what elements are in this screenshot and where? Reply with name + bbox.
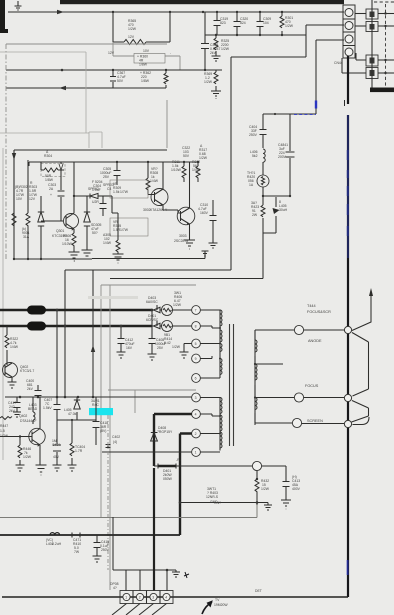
ferrite bead on y310 (27, 306, 46, 315)
resistor R410 on y535 (72, 533, 80, 538)
flyback board box (101, 285, 196, 590)
wire bus y280 (110, 278, 263, 280)
ground small at 205 (202, 251, 209, 256)
annotation arrow bottom (202, 602, 212, 614)
diode D401 (152, 321, 162, 326)
capacitor C408 (149, 310, 156, 354)
capacitor C319 (214, 12, 221, 35)
wire light y517 (0, 505, 257, 518)
svg-text:DET: DET (255, 589, 262, 593)
capacitor C417 (14, 397, 21, 412)
wire y196 (263, 195, 290, 197)
diode D408 (151, 433, 158, 442)
svg-text:TV: TV (215, 598, 220, 602)
surge arrester SUR1 cyan highlight (89, 408, 113, 415)
svg-text:160V: 160V (200, 211, 209, 215)
wire thick top bar (60, 0, 344, 4)
ground under R369 (211, 91, 221, 99)
capacitor C305 (114, 162, 121, 185)
wire box B1 to dashed (378, 13, 394, 15)
svg-text:823: 823 (220, 21, 226, 25)
resistor R301 (281, 12, 283, 35)
wire x96 down (95, 397, 97, 445)
svg-text:19M20W: 19M20W (214, 603, 228, 607)
svg-text:1: 1 (125, 596, 127, 600)
connector CN44 (343, 5, 355, 58)
wire amp box (14, 150, 167, 259)
svg-text:50V: 50V (183, 154, 190, 158)
svg-text:1A: 1A (249, 183, 254, 187)
svg-text:10V: 10V (143, 49, 150, 53)
svg-text:1/2W: 1/2W (261, 487, 270, 491)
svg-text:12V: 12V (29, 197, 36, 201)
wire base left (0, 436, 32, 438)
resistor R309 service box (110, 180, 148, 198)
resistor R365 (113, 12, 170, 42)
thick drive path pin4 (154, 414, 192, 466)
svg-text:10V: 10V (16, 197, 23, 201)
svg-text:-R-: -R- (176, 458, 181, 462)
node arrow down (12, 153, 16, 160)
fusible resistor circled R405 (162, 321, 173, 332)
ground under C412 (117, 352, 126, 358)
wire pin4 to box B3 (356, 53, 366, 60)
ground y503 stub (257, 503, 272, 511)
potentiometer R304 (41, 164, 65, 177)
wire bottom long line (2, 596, 348, 598)
svg-text:KTC3/1.7: KTC3/1.7 (20, 369, 34, 373)
winding rails (220, 310, 255, 451)
resistor R305 service box (110, 218, 148, 236)
ground under C417 (13, 412, 21, 417)
transistor Q401 (3, 363, 18, 378)
capacitor C407 (54, 397, 61, 420)
wire pin3 path (263, 40, 344, 114)
wire thick y535 H-return (0, 534, 180, 536)
resistor R311 (183, 162, 185, 166)
svg-text:1/8W: 1/8W (139, 63, 148, 67)
svg-text:3: 3 (195, 396, 197, 400)
wire G1 right to C413 (262, 466, 286, 481)
resistor R308 (147, 162, 149, 178)
wire y196 down (263, 196, 276, 233)
wire box B3 right (378, 59, 394, 61)
inductor L404 on y535 (50, 533, 60, 535)
node arrow on y12 (57, 10, 64, 14)
blue dashed annotation y114 (294, 114, 316, 116)
svg-text:4: 4 (165, 596, 167, 600)
svg-text:1/4W: 1/4W (150, 179, 159, 183)
svg-text:(8V): (8V) (100, 429, 106, 433)
wire main top bus y12 (8, 11, 344, 13)
secondary winding (255, 330, 294, 340)
component box B4 (366, 68, 378, 79)
svg-text:U2R: U2R (92, 200, 99, 204)
wire pin2 to box B2 (355, 25, 366, 27)
svg-text:9: 9 (195, 357, 197, 361)
capacitor C367 (110, 70, 116, 88)
wire gnd line y503 (180, 502, 257, 504)
svg-text:1/2W: 1/2W (173, 303, 182, 307)
vertical feeds to y397 (57, 310, 65, 397)
transformer core (230, 324, 234, 446)
wire Q302 emitter to Q303 (163, 162, 178, 213)
svg-text:25V: 25V (157, 346, 164, 350)
svg-text:1/2W: 1/2W (199, 156, 208, 160)
ground under C406 (53, 465, 62, 471)
dash-dot vertical (107, 415, 109, 570)
svg-text:30uH: 30uH (279, 208, 288, 212)
capacitor C320 (234, 12, 241, 35)
svg-text:1/2W: 1/2W (0, 434, 9, 438)
svg-text:1.5: 1.5 (0, 429, 5, 433)
wire thick left edge bar (0, 0, 5, 33)
svg-text:BEAD: BEAD (28, 407, 38, 411)
svg-text:2.2uH: 2.2uH (52, 542, 62, 546)
wire pin1 to box B1 (355, 13, 366, 15)
svg-text:FOCUS: FOCUS (305, 384, 319, 388)
wire bus y35 (205, 25, 344, 35)
ground Q301 emitter (69, 250, 80, 261)
pin column T444 (192, 306, 201, 457)
svg-text:1.7R: 1.7R (75, 449, 83, 453)
wire thick B+ bus y310 (0, 309, 152, 311)
svg-text:1/4W: 1/4W (103, 241, 112, 245)
svg-text:1.0uF: 1.0uF (92, 188, 101, 192)
wire bus y163 (74, 161, 198, 163)
wire thick drive into pin3 (153, 468, 155, 591)
wire y70 (6, 69, 222, 71)
HV node circles (344, 326, 351, 333)
transistor Q302 (151, 189, 168, 206)
capacitor C415 (94, 535, 101, 556)
ferrite bead on y326 (27, 322, 46, 331)
wire pin1 line y452 (102, 451, 192, 453)
svg-text:1/10W: 1/10W (171, 168, 182, 172)
wire y57 box path (231, 35, 306, 270)
svg-text:(4): (4) (113, 440, 117, 444)
svg-text:R304: R304 (44, 154, 52, 158)
wire pin3 bus y397 continues (5, 396, 192, 398)
svg-text:3: 3 (152, 596, 154, 600)
resistor R432 (256, 471, 258, 479)
capacitor C404 (260, 114, 267, 148)
svg-text:31A: 31A (23, 235, 30, 239)
svg-text:R447: R447 (0, 424, 8, 428)
svg-text:Q301: Q301 (56, 229, 64, 233)
wire inner top y160 (14, 150, 74, 213)
diode D403 (152, 305, 162, 310)
svg-text:7: 7 (195, 309, 197, 313)
ground Q402 emitter (36, 465, 47, 475)
resistor R360 (113, 42, 180, 70)
svg-text:5: 5 (195, 342, 197, 346)
wire x113 down to connector bus (112, 517, 114, 570)
svg-text:+: + (50, 193, 52, 197)
svg-text:200V: 200V (278, 155, 287, 159)
zener SD305 (86, 196, 88, 250)
inductor L406 (263, 149, 265, 162)
loop focus-screen (352, 401, 369, 423)
svg-text:16V: 16V (126, 346, 133, 350)
ground Q303 (184, 240, 195, 249)
fusible resistor circled R406 (162, 305, 173, 316)
ground under R325 (212, 56, 221, 61)
wire y466 to G1 (180, 465, 252, 467)
ground under R446 (16, 465, 25, 471)
connector CN408 (120, 591, 173, 604)
svg-text:1/8W: 1/8W (141, 79, 150, 83)
heavy HV vertical line (347, 56, 349, 104)
svg-text:1/8W: 1/8W (45, 178, 54, 182)
ground under Q401 (8, 382, 17, 388)
capacitor C412 (118, 326, 125, 352)
zener SV301 (90, 193, 98, 198)
wire box B2 right (378, 25, 394, 27)
diode D301 (40, 196, 42, 259)
resistor R404b (71, 420, 73, 465)
loop anode-focus (352, 333, 369, 397)
svg-text:25V: 25V (103, 175, 110, 179)
resistor R369 (205, 70, 216, 91)
resistor R321 (117, 236, 119, 240)
resistor R421 (261, 205, 265, 217)
transistor Q301 (64, 214, 79, 229)
svg-text:2: 2 (139, 596, 141, 600)
wire to box B4 (342, 58, 366, 73)
left edge faint vertical (2, 148, 4, 460)
annotation tick (184, 572, 189, 578)
ground top-left (15, 1, 22, 10)
svg-text:4: 4 (195, 413, 197, 417)
resistor R362 (113, 70, 166, 88)
svg-text:4?: 4? (113, 586, 117, 590)
svg-text:C40?: C40? (52, 443, 60, 447)
inductor L405b (275, 197, 277, 207)
svg-text:1/4W: 1/4W (192, 168, 201, 172)
wire box B4 right (378, 72, 394, 74)
svg-text:8: 8 (195, 325, 197, 329)
resistor R306 (72, 233, 76, 250)
svg-text:T444: T444 (307, 304, 316, 308)
ghost rect A (6, 44, 167, 148)
svg-text:1/2W: 1/2W (172, 345, 181, 349)
svg-text:2: 2 (195, 432, 197, 436)
capacitor C409 (286, 114, 295, 196)
svg-text:ANODE: ANODE (308, 339, 322, 343)
node circle G1 (252, 461, 261, 470)
primary winding upper (200, 310, 220, 378)
faint scan smudges (88, 296, 138, 299)
wire drops to pins (126, 570, 167, 591)
svg-text:6A0/SC: 6A0/SC (146, 300, 158, 304)
dashed CRT box edge (385, 4, 387, 88)
ground under C415 (93, 556, 102, 562)
wire y213 zener to right (112, 196, 118, 236)
svg-text:5k2: 5k2 (252, 154, 258, 158)
svg-text:1/10W: 1/10W (62, 242, 73, 246)
wire x245 to y280 (262, 233, 264, 279)
svg-text:50?: 50? (92, 231, 98, 235)
svg-text:12V: 12V (108, 51, 115, 55)
capacitor C309 (257, 12, 264, 35)
wire arrow line x93 (92, 270, 94, 397)
capacitor C418 (93, 414, 100, 435)
svg-text:3003: 3003 (179, 234, 187, 238)
right vertical from top (352, 294, 371, 331)
ground under R404b (68, 465, 77, 471)
capacitor C303 (58, 170, 65, 206)
svg-text:6.42: 6.42 (164, 341, 171, 345)
svg-text:7RGP15Y: 7RGP15Y (157, 430, 173, 434)
svg-text:1.5k: 1.5k (113, 190, 120, 194)
svg-text:1/7W: 1/7W (120, 190, 129, 194)
capacitor C406 polar (53, 420, 61, 465)
capacitor C368 (201, 12, 209, 70)
svg-text:FOCUS&SCR: FOCUS&SCR (307, 310, 331, 314)
component box B3 (366, 55, 378, 66)
svg-text:1: 1 (195, 451, 197, 455)
capacitor C310 (210, 200, 217, 243)
fusible resistor R401 thick (158, 465, 176, 468)
svg-text:7W: 7W (74, 550, 80, 554)
screen stub curve (353, 417, 370, 425)
wire long bus y270 (65, 270, 231, 326)
svg-text:1/2W: 1/2W (221, 47, 230, 51)
thick drive path pin2 (180, 434, 192, 536)
svg-text:250V: 250V (249, 133, 258, 137)
wire thick bar bottom of CRT box (371, 0, 373, 88)
transistor Q402 (29, 428, 45, 444)
svg-text:DTA144AF: DTA144AF (20, 419, 37, 423)
svg-text:1/2W: 1/2W (23, 455, 32, 459)
svg-text:1/4W: 1/4W (10, 345, 19, 349)
svg-text:12V: 12V (128, 35, 135, 39)
svg-text:2A: 2A (49, 187, 54, 191)
svg-text:2W: 2W (252, 213, 258, 217)
component box B2 (366, 22, 378, 32)
capacitor C400 (35, 385, 42, 397)
wire bus y420 (57, 419, 96, 421)
ground under C408 (148, 354, 157, 360)
svg-text:1/2W: 1/2W (128, 27, 137, 31)
resistor R325 (215, 35, 217, 56)
svg-text:C4: C4 (107, 187, 111, 191)
diode D405 (76, 397, 78, 420)
wire connector feed bus y570 (113, 569, 167, 571)
svg-text:Q402: Q402 (19, 414, 27, 418)
node dots on y12 (112, 11, 114, 13)
ground at connector (167, 570, 180, 577)
wire collector node (73, 195, 75, 197)
svg-text:SCREEN: SCREEN (307, 419, 323, 423)
secondary output circles (294, 325, 303, 334)
wire base Q301 (41, 206, 63, 221)
inductor L403 bead (32, 397, 34, 412)
wire thick bus y326 (0, 325, 152, 327)
svg-text:400V: 400V (292, 487, 301, 491)
thermistor TH401 circled (262, 162, 264, 196)
blue pen marks on HV line (315, 101, 317, 109)
svg-text:2kV: 2kV (27, 387, 34, 391)
svg-text:824: 824 (240, 21, 246, 25)
ground under R321 (113, 254, 124, 263)
resistor R322 (6, 326, 8, 362)
svg-text:CN44: CN44 (334, 61, 343, 65)
wire pin5 ground chain (184, 344, 192, 353)
ground under C413 (281, 500, 291, 509)
svg-text:1/7W: 1/7W (120, 228, 129, 232)
svg-text:50V: 50V (117, 79, 124, 83)
svg-text:1/2W: 1/2W (204, 80, 213, 84)
svg-text:C402: C402 (112, 435, 120, 439)
svg-text:KTA1266-Y: KTA1266-Y (150, 208, 168, 212)
svg-text:12NR-S: 12NR-S (206, 495, 219, 499)
component box B1 (366, 9, 378, 19)
svg-text:1.5kV: 1.5kV (43, 406, 52, 410)
wire y88 with left arrow (6, 87, 113, 89)
capacitor C304 (100, 196, 107, 216)
svg-text:-: - (170, 51, 171, 55)
ground mid (82, 250, 93, 259)
ground pin5 (180, 352, 189, 358)
wire fan-out below connector (112, 604, 167, 615)
capacitor C413 (283, 482, 290, 501)
resistor R447 (0, 417, 12, 420)
wire long bus y258 (92, 251, 205, 259)
transistor Q303 (177, 207, 195, 225)
svg-text:1/2W: 1/2W (285, 24, 294, 28)
resistor R446 (19, 437, 21, 466)
resistor R310 (197, 162, 199, 166)
svg-text:250V: 250V (101, 548, 110, 552)
svg-text:40V: 40V (53, 455, 60, 459)
wires to HV line (302, 330, 344, 424)
svg-text:050W: 050W (163, 477, 173, 481)
svg-text:47.0k: 47.0k (68, 412, 77, 416)
primary winding lower (200, 398, 220, 453)
svg-text:GN?: GN? (214, 501, 221, 505)
svg-text:6: 6 (195, 377, 197, 381)
ground under C310 (209, 243, 218, 248)
svg-text:104: 104 (263, 21, 269, 25)
